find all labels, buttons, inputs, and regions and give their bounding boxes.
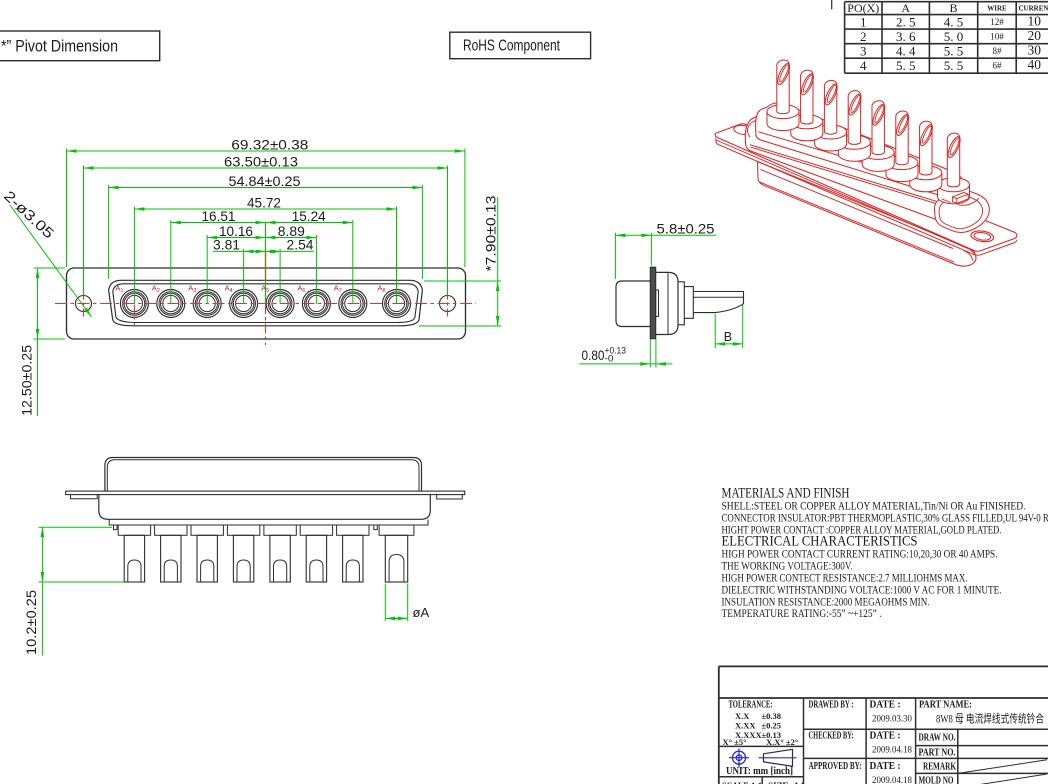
rear view: shell inner wall bbox=[107, 460, 419, 491]
side view: small step bbox=[684, 287, 693, 319]
3d view: contact 1 scoop inner bbox=[778, 64, 790, 83]
svg-text:X.XX: X.XX bbox=[735, 721, 756, 731]
leader 2-diam 3.05 bbox=[10, 205, 92, 317]
svg-text:APPROVED BY:: APPROVED BY: bbox=[809, 761, 862, 772]
dimension 16.51 bbox=[171, 222, 266, 224]
dimension 2.54 bbox=[266, 250, 276, 254]
3d view: contact 3 scoop outer bbox=[823, 82, 840, 106]
title block: header divider bbox=[719, 697, 1048, 699]
3d view: flange hole right outer bbox=[970, 230, 994, 243]
svg-text:ELECTRICAL CHARACTERISTICS: ELECTRICAL CHARACTERISTICS bbox=[722, 534, 918, 550]
title block: mold diagonal bbox=[958, 774, 1047, 784]
svg-text:8W8 母 电流焊线式传统钤合: 8W8 母 电流焊线式传统钤合 bbox=[936, 712, 1044, 726]
3d view: shell mid slab bbox=[745, 116, 967, 220]
dimension 5.8 bbox=[615, 234, 716, 236]
3d view: contact 6 scoop inner bbox=[897, 115, 909, 134]
3d view: contact 7 boss bbox=[910, 173, 942, 192]
svg-text:2009.04.18: 2009.04.18 bbox=[872, 746, 912, 756]
dimension 5.8 extension lines bbox=[614, 233, 616, 279]
svg-text:10#: 10# bbox=[990, 31, 1004, 41]
side view: body left block bbox=[616, 281, 651, 327]
3d view: contact 4 boss bbox=[838, 142, 870, 161]
svg-text:A1: A1 bbox=[115, 283, 123, 294]
svg-text:10: 10 bbox=[1028, 13, 1042, 28]
svg-text:A7: A7 bbox=[334, 283, 342, 294]
dimension 10.2 vertical bbox=[41, 527, 43, 656]
front view: contact A4 rings bbox=[230, 290, 258, 318]
rear view: pin 3 solder cup bbox=[201, 560, 214, 582]
front view: mounting hole right bbox=[440, 296, 456, 312]
rear view: pin 3 barrel bbox=[197, 535, 217, 582]
svg-text:-0: -0 bbox=[605, 354, 614, 364]
svg-text:WIRE: WIRE bbox=[987, 5, 1007, 13]
rear view: pin 4 stub bbox=[227, 525, 259, 535]
3d view: flange hole left bbox=[733, 124, 754, 135]
3d view: lower block bottom double line bbox=[760, 182, 972, 262]
dimension 12.50 extension lines bbox=[34, 267, 66, 269]
dimension 3.81 bbox=[213, 250, 314, 252]
3d view: right end cap outer bbox=[934, 191, 989, 233]
table stray tick bbox=[831, 0, 833, 9]
svg-text:PART NO.: PART NO. bbox=[919, 748, 956, 759]
svg-text:5. 5: 5. 5 bbox=[896, 58, 916, 73]
svg-text:16.51: 16.51 bbox=[202, 208, 236, 224]
svg-text:UNIT: mm [inch]: UNIT: mm [inch] bbox=[726, 766, 793, 777]
dimension 63.50 bbox=[84, 167, 448, 169]
dimension 69.32 bbox=[67, 150, 465, 152]
svg-text:45.72: 45.72 bbox=[247, 194, 281, 210]
3d view: contact 2 boss bbox=[791, 122, 823, 141]
svg-text:±0.25: ±0.25 bbox=[762, 721, 782, 731]
svg-text:40: 40 bbox=[1028, 57, 1042, 72]
svg-text:12.50±0.25: 12.50±0.25 bbox=[19, 345, 35, 416]
3d view: flange thickness lines bbox=[716, 138, 1017, 255]
rear view: pin 5 solder cup bbox=[274, 560, 287, 582]
dimension 12.50 vertical bbox=[37, 268, 39, 416]
3d view: contact 1 scoop outer bbox=[775, 62, 792, 86]
svg-text:A: A bbox=[901, 1, 910, 15]
front view: hole centerline right bbox=[447, 292, 449, 320]
rear view: insulator body bbox=[99, 495, 431, 520]
dimension 69.32 extension lines bbox=[66, 149, 68, 268]
svg-text:X.X° ±2°: X.X° ±2° bbox=[766, 737, 798, 747]
svg-text:TOLERANCE:: TOLERANCE: bbox=[729, 700, 773, 711]
3d view: lower insulator block bbox=[758, 162, 977, 267]
rear view: pin 2 stub bbox=[155, 525, 187, 535]
svg-text:±0.38: ±0.38 bbox=[762, 711, 782, 721]
dimension 10.16 extension line bbox=[206, 235, 208, 304]
3d view: contact 2 scoop inner bbox=[802, 74, 814, 93]
svg-text:69.32±0.38: 69.32±0.38 bbox=[231, 136, 308, 152]
front view: contact A7 rings bbox=[339, 290, 367, 318]
dimension 8.89 bbox=[266, 237, 317, 239]
svg-text:2009.03.30: 2009.03.30 bbox=[872, 715, 912, 725]
rear view: pin 7 barrel bbox=[343, 535, 363, 582]
3d view: key notch bbox=[952, 193, 968, 204]
3d view: contact 7 scoop inner bbox=[921, 125, 933, 144]
side view: flange bar bbox=[650, 267, 655, 339]
3d view: contact 1 barrel bbox=[777, 60, 789, 114]
svg-text:5. 5: 5. 5 bbox=[944, 43, 964, 58]
svg-text:20: 20 bbox=[1028, 28, 1042, 43]
svg-text:SHELL:STEEL OR COPPER ALLOY MA: SHELL:STEEL OR COPPER ALLOY MATERIAL,Tin… bbox=[722, 501, 1026, 513]
dimension 10.16 bbox=[207, 237, 265, 239]
dimension 8.89 extension line bbox=[315, 235, 317, 304]
dimension 15.24 bbox=[266, 222, 353, 224]
svg-text:øA: øA bbox=[413, 605, 430, 620]
rear view: pin 6 stub bbox=[300, 525, 332, 535]
svg-text:CURRENT RATING(A): CURRENT RATING(A) bbox=[1019, 5, 1048, 13]
title block: third angle projection symbol bbox=[733, 751, 746, 764]
3d view: contact 3 boss bbox=[815, 132, 847, 151]
dimension 7.90 extension lines bbox=[424, 280, 501, 282]
rear view: pin 6 barrel bbox=[306, 535, 326, 582]
front view: contact A1 rings bbox=[120, 290, 148, 318]
rear view: pin 1 solder cup bbox=[128, 560, 141, 582]
front view: contact A8 rings bbox=[383, 290, 411, 318]
svg-text:3. 6: 3. 6 bbox=[896, 29, 916, 44]
3d view: contact 4 scoop inner bbox=[849, 95, 861, 114]
svg-text:0.80: 0.80 bbox=[582, 347, 605, 363]
rear view: pin 2 barrel bbox=[161, 535, 181, 582]
svg-text:A4: A4 bbox=[225, 283, 233, 294]
rear view: pin 7 stub bbox=[337, 525, 369, 535]
svg-text:DRAWED BY :: DRAWED BY : bbox=[809, 700, 854, 711]
rear view: pin 6 solder cup bbox=[310, 560, 323, 582]
side view: step ring bbox=[678, 282, 684, 325]
3d view: flange plate bbox=[715, 124, 1017, 251]
3d view: flange hole right inner bbox=[974, 231, 991, 241]
front view: contact A5 rings bbox=[266, 290, 294, 318]
svg-text:2: 2 bbox=[860, 29, 867, 44]
svg-text:CHECKED BY:: CHECKED BY: bbox=[809, 731, 854, 742]
front view: insert outline inner bbox=[113, 284, 418, 323]
svg-text:12#: 12# bbox=[990, 17, 1004, 27]
svg-text:A6: A6 bbox=[297, 283, 305, 294]
svg-text:54.84±0.25: 54.84±0.25 bbox=[229, 173, 301, 189]
title block: remark diagonal bbox=[958, 760, 1047, 774]
svg-text:2-ø3.05: 2-ø3.05 bbox=[0, 188, 56, 242]
3d view: contact 5 scoop inner bbox=[873, 105, 885, 124]
3d view: shell left end cap line bbox=[747, 120, 762, 137]
front view: contact A6 rings bbox=[302, 290, 330, 318]
dimension 54.84 extension lines bbox=[108, 185, 110, 279]
svg-text:CONNECTOR INSULATOR:PBT THERMO: CONNECTOR INSULATOR:PBT THERMOPLASTIC,30… bbox=[722, 513, 1048, 525]
table: contact size table bbox=[845, 1, 1048, 3]
front view: contact A2 rings bbox=[157, 290, 185, 318]
svg-text:8#: 8# bbox=[992, 46, 1002, 56]
rear view: pin 8 barrel bbox=[385, 535, 407, 582]
3d view: contact 8 scoop inner bbox=[949, 137, 961, 156]
dimension 2.54 extension line bbox=[279, 249, 281, 304]
svg-text:PART NAME:: PART NAME: bbox=[919, 700, 972, 711]
svg-text:4. 5: 4. 5 bbox=[944, 14, 964, 29]
3d view: contact 4 scoop outer bbox=[847, 93, 864, 117]
front view: horizontal centerline bbox=[55, 303, 476, 305]
svg-text:X° ±5°: X° ±5° bbox=[723, 737, 747, 747]
svg-text:3: 3 bbox=[860, 43, 867, 58]
title block: vertical dividers bbox=[803, 698, 805, 784]
dimension 54.84 bbox=[109, 187, 423, 189]
svg-text:A2: A2 bbox=[152, 283, 160, 294]
svg-text:2009.04.18: 2009.04.18 bbox=[872, 776, 912, 784]
3d view: contact 3 scoop inner bbox=[826, 84, 838, 103]
rear view: pin 5 stub bbox=[264, 525, 296, 535]
svg-text:TEMPERATURE RATING:-55” ~+125”: TEMPERATURE RATING:-55” ~+125” . bbox=[722, 608, 882, 620]
front view: vertical centerline at part center bbox=[265, 222, 267, 252]
svg-text:HIGH POWER CONTECT RESISTANCE:: HIGH POWER CONTECT RESISTANCE:2.7 MILLIO… bbox=[722, 572, 968, 584]
side view: crimp pin bbox=[693, 292, 743, 313]
dimension 15.24 extension line bbox=[352, 220, 354, 304]
svg-text:DIELECTRIC WITHSTANDING VOLTAC: DIELECTRIC WITHSTANDING VOLTACE:1000 V A… bbox=[722, 584, 1002, 596]
3d view: right end cap inner bbox=[939, 196, 983, 229]
3d view: contact 7 scoop outer bbox=[918, 123, 935, 147]
rear view: index bump left bbox=[114, 525, 118, 530]
rear view: pin 4 barrel bbox=[233, 535, 253, 582]
svg-text:3.81: 3.81 bbox=[213, 237, 240, 253]
front view: mounting hole left bbox=[76, 296, 92, 312]
3d view: insert right end step lines bbox=[942, 198, 979, 205]
svg-text:*” Pivot Dimension: *” Pivot Dimension bbox=[1, 37, 118, 56]
dimension B extension lines bbox=[714, 314, 716, 348]
rear view: pin 3 stub bbox=[191, 525, 223, 535]
dimension diam A bbox=[385, 617, 407, 619]
svg-text:B: B bbox=[724, 330, 732, 344]
svg-text:4: 4 bbox=[860, 58, 867, 73]
3d view: lower block inner top line bbox=[761, 170, 954, 249]
note box: Pivot Dimension bbox=[0, 31, 160, 61]
3d view: contact 2 scoop outer bbox=[799, 72, 816, 96]
side view: main body bbox=[656, 272, 678, 334]
svg-text:THE WORKING VOLTAGE:300V.: THE WORKING VOLTAGE:300V. bbox=[722, 560, 853, 572]
3d view: insert top near edge bbox=[758, 132, 936, 184]
3d view: contact 6 barrel bbox=[896, 111, 908, 165]
dimension 45.72 extension lines bbox=[133, 207, 135, 305]
rear view: pin 4 solder cup bbox=[237, 560, 250, 582]
dimension B bbox=[715, 343, 743, 345]
dimension 10.2 extension lines bbox=[39, 526, 113, 528]
svg-text:REMARK: REMARK bbox=[923, 762, 956, 773]
side view: insert protrusion bbox=[656, 290, 659, 317]
3d view: contact 5 boss bbox=[862, 152, 894, 171]
title block: cone symbol bbox=[764, 749, 793, 766]
svg-text:A3: A3 bbox=[188, 283, 196, 294]
dimension 7.90 vertical bbox=[497, 197, 499, 326]
svg-text:RoHS Component: RoHS Component bbox=[463, 38, 560, 55]
3d view: contact 8 boss bbox=[938, 185, 970, 204]
front view: contact A1 vertical centerline bbox=[133, 305, 135, 326]
svg-text:2. 5: 2. 5 bbox=[896, 14, 916, 29]
svg-text:X.X: X.X bbox=[735, 711, 750, 721]
rear view: flange plate bbox=[66, 491, 465, 495]
dimension 16.51 extension line bbox=[170, 220, 172, 304]
rear view: index bump right bbox=[374, 525, 378, 530]
dimension 3.81 extension line bbox=[243, 249, 245, 304]
3d view: contact 4 barrel bbox=[848, 91, 860, 145]
svg-text:B: B bbox=[950, 1, 958, 15]
rear view: pin 8 stub bbox=[379, 525, 414, 535]
rear view: pin 7 solder cup bbox=[346, 560, 359, 582]
svg-text:DRAW NO.: DRAW NO. bbox=[919, 733, 956, 744]
front view: insert outline outer bbox=[109, 280, 423, 326]
svg-text:30: 30 bbox=[1028, 42, 1042, 57]
svg-text:1: 1 bbox=[860, 14, 867, 29]
note box: RoHS Component bbox=[450, 32, 591, 59]
svg-text:MATERIALS AND FINISH: MATERIALS AND FINISH bbox=[722, 486, 850, 502]
rear view: pin 5 barrel bbox=[270, 535, 290, 582]
svg-text:A8: A8 bbox=[378, 283, 386, 294]
svg-text:5.8±0.25: 5.8±0.25 bbox=[657, 220, 715, 236]
svg-text:5. 5: 5. 5 bbox=[944, 58, 964, 73]
svg-text:6#: 6# bbox=[992, 60, 1002, 70]
rear view: base strip bbox=[109, 519, 428, 525]
3d view: contact 8 barrel bbox=[947, 133, 959, 187]
dimension diam A extension lines bbox=[384, 584, 386, 622]
title block: outer border bbox=[718, 666, 720, 784]
rear view: flange tab right bbox=[437, 495, 463, 499]
3d view: contact 5 barrel bbox=[872, 101, 884, 155]
svg-text:DATE :: DATE : bbox=[870, 761, 901, 772]
svg-text:63.50±0.13: 63.50±0.13 bbox=[224, 153, 298, 169]
dimension 0.80 bbox=[579, 363, 672, 365]
3d view: contact 5 scoop outer bbox=[870, 103, 887, 127]
3d view: contact 1 boss bbox=[767, 112, 799, 131]
3d view: contact 7 barrel bbox=[920, 121, 932, 175]
3d view: contact 2 barrel bbox=[801, 70, 813, 124]
rear view: pin 1 stub bbox=[118, 525, 150, 535]
3d view: contact 3 barrel bbox=[824, 80, 836, 134]
svg-text:2.54: 2.54 bbox=[287, 237, 314, 253]
svg-text:MOLD NO: MOLD NO bbox=[919, 776, 954, 784]
svg-text:DATE :: DATE : bbox=[870, 731, 901, 742]
front view: hole centerline left bbox=[83, 292, 85, 320]
front view: contact A3 rings bbox=[193, 290, 221, 318]
svg-text:15.24: 15.24 bbox=[292, 208, 326, 224]
svg-text:HIGH POWER CONTACT CURRENT RAT: HIGH POWER CONTACT CURRENT RATING:10,20,… bbox=[722, 548, 998, 560]
svg-text:10.2±0.25: 10.2±0.25 bbox=[23, 590, 39, 655]
dimension 45.72 bbox=[134, 208, 396, 210]
rear view: shell outline bbox=[105, 458, 422, 492]
rear view: pin 2 solder cup bbox=[164, 560, 177, 582]
dimension 0.80 extension lines bbox=[649, 339, 651, 367]
3d view: shell top face near edge bbox=[750, 145, 936, 202]
svg-text:5. 0: 5. 0 bbox=[944, 29, 964, 44]
3d view: insert slab bbox=[756, 103, 963, 195]
dimension 63.50 extension lines bbox=[83, 166, 85, 295]
rear view: pin 1 barrel bbox=[124, 535, 144, 582]
svg-text:PO(X): PO(X) bbox=[847, 1, 879, 15]
3d view: contact 6 scoop outer bbox=[894, 113, 911, 137]
svg-text:INSULATION RESISTANCE:2000 MEG: INSULATION RESISTANCE:2000 MEGAOHMS MIN. bbox=[722, 596, 930, 608]
svg-text:DATE :: DATE : bbox=[870, 700, 901, 711]
3d view: contact 8 scoop outer bbox=[946, 135, 963, 159]
rear view: pin 8 solder cup bbox=[389, 555, 404, 583]
3d view: contact 6 boss bbox=[886, 163, 918, 182]
front view: outer shell outline bbox=[67, 268, 466, 339]
rear view: flange tab left bbox=[71, 495, 98, 499]
svg-text:4. 4: 4. 4 bbox=[896, 43, 916, 58]
svg-text:*7.90±0.13: *7.90±0.13 bbox=[483, 195, 499, 271]
title block: row lines bbox=[719, 745, 804, 747]
